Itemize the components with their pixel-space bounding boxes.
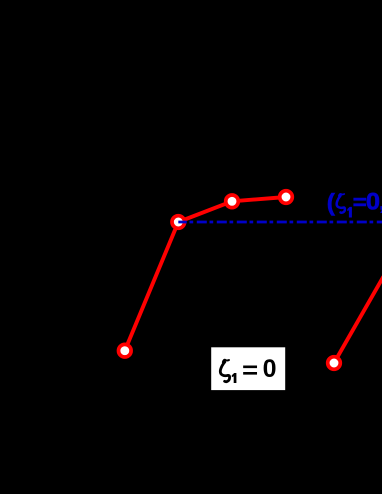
red right segment — [334, 277, 382, 364]
white label box — [211, 347, 285, 390]
label box = 0 text — [242, 355, 277, 384]
blue dash-dot asymptote line — [178, 221, 382, 224]
svg-text:0: 0 — [366, 189, 380, 215]
blue zeta glyph — [337, 194, 345, 213]
data marker 1 — [119, 344, 132, 357]
svg-text:=: = — [353, 190, 367, 214]
data marker 3 — [226, 195, 239, 208]
data marker 4 — [280, 191, 293, 204]
data marker 5 — [328, 357, 341, 370]
blue annotation text (zeta1=0, — [327, 189, 382, 216]
svg-text:(: ( — [327, 190, 336, 217]
svg-text:0: 0 — [263, 355, 277, 383]
data marker 2 — [172, 216, 185, 229]
svg-text:=: = — [242, 356, 258, 384]
label box zeta glyph — [220, 360, 229, 382]
label box subscript 1 — [232, 373, 237, 383]
red data polyline — [125, 197, 286, 351]
blue subscript 1 — [347, 207, 352, 218]
